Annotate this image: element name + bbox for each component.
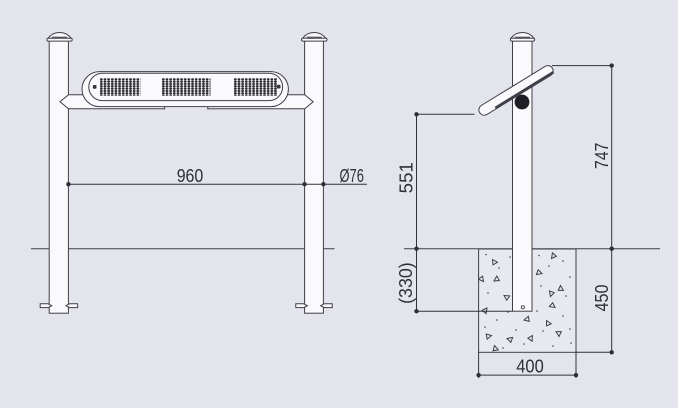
dimension 450 dot bottom: [610, 350, 614, 354]
dimension 551 vertical line: [416, 114, 418, 248]
panel left screw: [93, 85, 97, 89]
dimension 960 dot right: [302, 182, 306, 186]
dimension 450 vertical line: [611, 249, 613, 353]
angled panel shadow edge: [495, 72, 553, 108]
dimension 400 dot left: [476, 373, 480, 377]
dimension diameter 76 leader: [305, 183, 367, 185]
ground line (side view): [404, 248, 660, 250]
panel outer capsule: [82, 72, 288, 107]
pivot knob: [515, 95, 530, 110]
post left anchor tab left: [40, 304, 52, 308]
post left cap ring: [47, 38, 72, 41]
support arm with pointed ends: [60, 95, 313, 109]
dimension 960 dot left: [66, 182, 70, 186]
foundation hatch: [478, 252, 572, 352]
dimension 747 vertical line: [611, 66, 613, 249]
dimension 747 dot top: [610, 63, 614, 67]
panel inner capsule: [89, 73, 283, 100]
dimension 400 line: [479, 374, 576, 376]
dimension 747 top leader: [552, 65, 612, 67]
dimension 450 bottom leader: [576, 351, 612, 353]
perforation group 1: [100, 78, 141, 96]
post right (front view): [305, 41, 324, 313]
svg-text:551: 551: [397, 162, 417, 193]
post right cap dome: [303, 33, 326, 39]
panel right screw: [277, 85, 281, 89]
dimension (330) vertical line: [416, 249, 418, 312]
post right cap ring: [302, 38, 328, 41]
post left anchor tab right: [66, 304, 78, 308]
post (side view): [513, 41, 533, 311]
svg-text:960: 960: [177, 166, 204, 186]
dimension 747 dot middle: [610, 247, 614, 251]
svg-text:Ø76: Ø76: [340, 166, 364, 186]
dimension 400 dot right: [574, 373, 578, 377]
dimension (330) bottom leader: [417, 310, 513, 312]
angled panel (side view): [477, 64, 555, 118]
dimension (330) dot bottom: [414, 309, 418, 313]
foundation block: [479, 249, 576, 352]
dimension 400 extension left: [478, 352, 480, 378]
post left cap dome: [48, 33, 71, 39]
perforation group 2: [162, 78, 211, 96]
panel bottom lip tick left: [164, 107, 166, 110]
perforation group 3: [234, 78, 278, 96]
post bottom drain hole: [521, 306, 524, 309]
panel bottom lip cover: [165, 108, 207, 110]
svg-text:400: 400: [516, 357, 544, 377]
post right anchor tab right: [321, 304, 333, 308]
post right anchor tab left: [296, 304, 308, 308]
post cap dome (side view): [511, 33, 534, 39]
dimension 960 line: [68, 183, 304, 185]
svg-text:(330): (330): [396, 262, 416, 304]
panel bottom lip tick right: [207, 107, 209, 110]
dimension diameter 76 dot: [321, 182, 325, 186]
ground line (front view): [31, 248, 335, 250]
dimension 400 extension right: [575, 352, 577, 378]
dimension 551 dot bottom: [414, 247, 418, 251]
post cap ring (side view): [510, 38, 534, 41]
dimension 551 dot top: [414, 112, 418, 116]
dimension 551 top leader: [417, 113, 475, 115]
svg-text:450: 450: [592, 285, 612, 312]
post left (front view): [49, 41, 68, 313]
svg-text:747: 747: [592, 143, 612, 169]
